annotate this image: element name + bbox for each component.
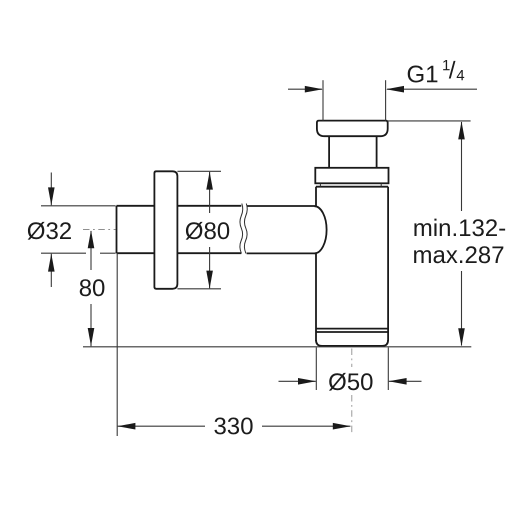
- group: product outline: [117, 121, 389, 346]
- label superscript 1: [443, 60, 449, 70]
- horizontal pipe bottom edge segment 1: [117, 252, 156, 254]
- pipe break squiggle right: [244, 204, 247, 254]
- arrow G1 left pointing right: [305, 86, 323, 93]
- 330 dimension line left part: [118, 425, 205, 427]
- top flange: [317, 121, 388, 137]
- O32 bottom extension line left part: [41, 252, 86, 254]
- arrow O50 left pointing right: [298, 378, 316, 385]
- bottom reference line: [83, 346, 471, 348]
- label 330: [214, 417, 225, 434]
- horizontal pipe left end: [116, 206, 118, 253]
- cap bottom with rounded corners: [316, 340, 388, 346]
- min-max vertical dimension line upper: [461, 122, 463, 211]
- O50 right extension line: [387, 348, 389, 391]
- label G1: [408, 66, 424, 83]
- arrow O80 down: [206, 271, 213, 289]
- O80 top extension line: [177, 170, 221, 172]
- cap top line: [316, 328, 388, 330]
- body axis centerline lower: [351, 395, 353, 435]
- O50 right arrow tail: [389, 380, 422, 382]
- G1 1/4 left leader: [288, 88, 322, 90]
- G1 1/4 right leader: [387, 88, 477, 90]
- arrow O32 down to pipe top: [48, 187, 55, 205]
- cup body left edge lower: [315, 253, 317, 341]
- cup body right edge: [387, 187, 389, 341]
- label O32: [28, 222, 45, 240]
- cap second line: [316, 331, 388, 333]
- pipe axis centerline: [83, 229, 116, 231]
- wall flange escutcheon: [154, 171, 177, 288]
- group: centerlines: [83, 230, 352, 436]
- arrow min-max up: [458, 121, 465, 139]
- O80 bottom extension line: [177, 288, 221, 290]
- horizontal pipe top edge segment 3: [247, 205, 315, 207]
- neck below flange left edge: [328, 136, 330, 168]
- arrow 330 pointing left: [117, 423, 135, 430]
- arrow min-max down: [458, 328, 465, 346]
- arrow G1 right pointing left: [386, 86, 404, 93]
- inlet tailpipe left edge: [322, 80, 324, 120]
- arrow 330 pointing right: [333, 423, 351, 430]
- 80 vertical dimension line upper: [90, 231, 92, 270]
- min-max vertical dimension line lower: [461, 271, 463, 346]
- neck below flange right edge: [376, 136, 378, 168]
- arrow O32 up to pipe bottom: [48, 254, 55, 272]
- label O80: [186, 222, 203, 240]
- O80 vertical dimension line lower: [209, 247, 211, 288]
- inlet tailpipe right edge: [385, 80, 387, 120]
- 330 dimension line right part: [262, 425, 350, 427]
- pipe break squiggle left: [240, 204, 243, 254]
- horizontal pipe top edge segment 2: [177, 205, 241, 207]
- O50 left arrow tail: [279, 380, 316, 382]
- slip nut ring: [315, 168, 388, 184]
- label 80: [80, 279, 91, 296]
- label max.287: [414, 250, 431, 263]
- 330 extension line: [116, 253, 118, 436]
- inlet pipe dome joint: [314, 206, 326, 253]
- arrow 80 up: [88, 230, 95, 248]
- label subscript 4: [457, 70, 465, 80]
- horizontal pipe bottom edge segment 3: [247, 252, 315, 254]
- group: labels: [28, 60, 505, 434]
- horizontal pipe bottom edge segment 2: [177, 252, 241, 254]
- cup body left edge upper: [315, 187, 317, 207]
- arrow O80 up: [206, 172, 213, 190]
- label O50: [329, 373, 346, 391]
- group: dimension lines: [41, 80, 477, 436]
- arrow O50 right pointing left: [389, 378, 407, 385]
- thread tick left between nut and body: [319, 184, 321, 187]
- O80 vertical dimension line upper: [209, 172, 211, 213]
- O32 upper arrow tail: [50, 173, 52, 206]
- thread tick right between nut and body: [380, 184, 382, 187]
- O32 bottom extension line right part: [100, 252, 116, 254]
- cup body top edge: [316, 186, 388, 188]
- O50 left extension line: [315, 348, 317, 391]
- label min.132-: [414, 223, 431, 236]
- arrow 80 down: [88, 328, 95, 346]
- horizontal pipe top edge segment 1: [117, 205, 156, 207]
- group: arrowheads: [48, 86, 465, 430]
- top reference line for min-max: [388, 120, 471, 122]
- O32 top extension line: [41, 205, 116, 207]
- O32 lower arrow tail: [50, 254, 52, 287]
- 80 vertical dimension line lower: [90, 304, 92, 346]
- body axis centerline upper: [351, 349, 353, 368]
- label fraction slash: [449, 61, 456, 79]
